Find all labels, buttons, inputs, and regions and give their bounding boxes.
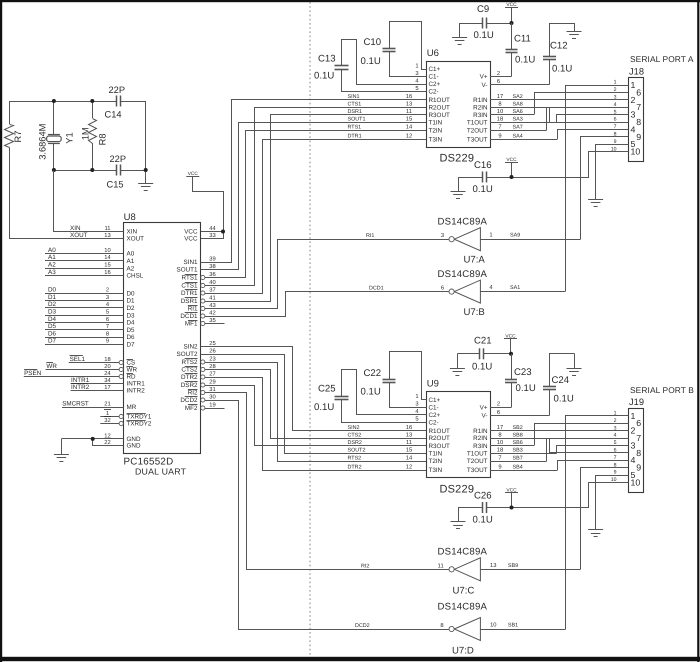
wire SOUT1 U8 to U6 — [201, 123, 427, 270]
svg-text:RTS2: RTS2 — [182, 359, 198, 366]
svg-text:C23: C23 — [514, 367, 532, 378]
wire DTR2 U8 to U9 — [205, 378, 427, 471]
svg-text:SMCRST: SMCRST — [62, 400, 89, 407]
wire U8 pin 2 D0 — [45, 293, 124, 295]
svg-text:14: 14 — [406, 455, 413, 461]
svg-text:20: 20 — [104, 363, 110, 370]
svg-text:DSR2: DSR2 — [181, 382, 198, 389]
svg-text:C16: C16 — [474, 160, 492, 171]
svg-text:D1: D1 — [48, 294, 57, 301]
pin number 9 / net SA4 — [498, 133, 522, 140]
wire C13 to C2- — [342, 70, 427, 92]
svg-text:CTS2: CTS2 — [181, 367, 198, 374]
svg-text:43: 43 — [209, 302, 215, 309]
svg-text:8: 8 — [636, 117, 641, 127]
svg-text:U6: U6 — [427, 48, 439, 59]
svg-text:SERIAL PORT B: SERIAL PORT B — [630, 385, 694, 395]
wire SIN1 U8 to U6 — [201, 100, 427, 263]
svg-text:13: 13 — [406, 431, 412, 438]
svg-text:16: 16 — [406, 93, 412, 100]
svg-text:10: 10 — [631, 147, 641, 157]
wire CTS1 U8 to U6 — [205, 108, 427, 286]
wire XIN from crystal — [54, 171, 124, 232]
svg-text:14: 14 — [104, 255, 111, 261]
ground at C24 — [574, 354, 576, 368]
wire VCC to U8 pin 44 — [193, 177, 224, 232]
svg-text:26: 26 — [209, 347, 215, 354]
svg-text:15: 15 — [406, 448, 412, 454]
svg-text:3: 3 — [631, 440, 636, 450]
svg-text:8: 8 — [106, 330, 109, 337]
svg-text:6: 6 — [497, 78, 500, 85]
wire C26 to ground — [458, 507, 482, 509]
svg-text:C9: C9 — [477, 4, 489, 15]
svg-text:R8: R8 — [98, 133, 108, 145]
svg-text:T2IN: T2IN — [429, 127, 443, 134]
svg-text:42: 42 — [209, 309, 215, 316]
svg-text:DTR2: DTR2 — [181, 374, 198, 381]
svg-text:A2: A2 — [127, 265, 135, 272]
svg-text:VCC: VCC — [184, 229, 198, 236]
wire U8 GND pin 22 — [93, 439, 124, 446]
svg-text:T3IN: T3IN — [429, 136, 443, 143]
wire SB6 jog to J19 row2 — [535, 424, 629, 446]
wire SB9 J19 row8 from U7:C — [581, 468, 629, 570]
wire RI1 net — [278, 239, 449, 241]
svg-text:TXRDY2: TXRDY2 — [127, 421, 152, 428]
inverter-buffer U7:B (DS14C89A) — [449, 280, 480, 303]
wire SA9 J18 row8 from U7:A — [581, 137, 629, 240]
svg-text:MF2: MF2 — [185, 405, 198, 412]
svg-text:24: 24 — [104, 370, 111, 377]
svg-text:SA8: SA8 — [513, 102, 523, 108]
svg-text:R1IN: R1IN — [473, 428, 488, 435]
resistor R8 — [89, 101, 97, 170]
svg-text:39: 39 — [209, 255, 215, 262]
wire C2+ loop via C13 — [342, 40, 427, 85]
wire U8 pin 18 SEL1 — [69, 362, 119, 364]
wire U9 R3IN stub — [490, 445, 534, 447]
ground at C16 — [458, 177, 460, 191]
svg-text:RD: RD — [127, 374, 137, 381]
svg-text:SB3: SB3 — [513, 448, 523, 454]
wire SB8 jog to J19 row6 — [550, 439, 629, 453]
svg-text:SA7: SA7 — [513, 125, 523, 131]
svg-text:D6: D6 — [127, 334, 136, 341]
wire U8 pin 21 SMCRST — [62, 407, 124, 409]
pin number 10 / net SB6 — [497, 439, 523, 446]
svg-text:SA1: SA1 — [510, 285, 520, 291]
wire crystal bottom rail right — [121, 170, 146, 172]
inverter-buffer U7:C (DS14C89A) — [449, 558, 480, 581]
capacitor C14 — [116, 96, 118, 107]
svg-text:V+: V+ — [480, 74, 488, 81]
svg-text:9: 9 — [498, 463, 501, 470]
svg-text:14: 14 — [406, 125, 413, 131]
svg-text:R2OUT: R2OUT — [429, 104, 450, 111]
svg-text:RI1: RI1 — [188, 306, 198, 313]
wire MF2 stub — [205, 408, 225, 410]
J18 pin numbers 1-10 — [611, 80, 617, 153]
svg-text:6: 6 — [497, 409, 500, 416]
pin number 10 / net SA6 — [497, 108, 523, 115]
svg-text:9: 9 — [614, 470, 617, 476]
svg-text:T2OUT: T2OUT — [467, 458, 488, 465]
svg-text:T1OUT: T1OUT — [467, 450, 488, 457]
wire U8 pin 14 A1 — [45, 260, 124, 262]
svg-text:19: 19 — [209, 401, 215, 408]
svg-text:R1OUT: R1OUT — [429, 428, 450, 435]
IC U9 DS229 body — [427, 392, 491, 478]
labels channel1 nets at U6 — [348, 93, 413, 139]
svg-text:18: 18 — [497, 116, 503, 123]
svg-text:D2: D2 — [48, 301, 57, 308]
capacitor C26 — [482, 502, 484, 513]
svg-text:T3IN: T3IN — [429, 467, 443, 474]
wire SA1 net — [480, 291, 565, 293]
wire SB7 jog to J19 row4 — [547, 439, 629, 462]
svg-text:0.1U: 0.1U — [314, 71, 334, 82]
svg-text:22P: 22P — [109, 85, 126, 95]
svg-text:C26: C26 — [474, 491, 492, 502]
svg-text:7: 7 — [636, 433, 641, 443]
wire DSR1 U8 to U6 — [205, 115, 427, 302]
capacitor C16 — [482, 172, 484, 183]
wire U8 pin 7 D5 — [45, 329, 124, 331]
wire V- rail — [490, 84, 550, 86]
svg-text:30: 30 — [209, 393, 215, 400]
capacitor C12 (V- to gnd) — [543, 24, 575, 85]
svg-text:32: 32 — [104, 417, 110, 424]
svg-text:3: 3 — [106, 294, 109, 301]
svg-text:C15: C15 — [107, 180, 124, 190]
svg-text:C1+: C1+ — [429, 66, 441, 73]
wire DCD2 net — [238, 629, 448, 631]
svg-text:INTR1: INTR1 — [127, 381, 146, 388]
svg-text:38: 38 — [209, 263, 215, 270]
svg-text:SOUT2: SOUT2 — [348, 448, 366, 454]
wire RI2 net — [247, 569, 449, 571]
svg-text:0.1U: 0.1U — [472, 362, 492, 373]
svg-text:SB7: SB7 — [513, 455, 523, 461]
svg-text:R7: R7 — [13, 131, 23, 143]
wire U9 T1OUT stub — [490, 453, 557, 455]
svg-text:R3OUT: R3OUT — [429, 443, 450, 450]
ground at C21 — [457, 354, 459, 368]
svg-text:R3IN: R3IN — [473, 112, 488, 119]
svg-text:2: 2 — [497, 70, 500, 77]
svg-text:U9: U9 — [427, 379, 439, 390]
pin number 8 / net SB8 — [498, 431, 522, 438]
wire RTS2 U8 to U9 — [205, 363, 427, 462]
svg-text:PSEN: PSEN — [24, 370, 42, 377]
svg-text:21: 21 — [104, 400, 110, 407]
svg-text:CHSL: CHSL — [127, 273, 144, 280]
svg-text:8: 8 — [636, 448, 641, 458]
svg-text:RTS2: RTS2 — [348, 455, 362, 461]
svg-text:16: 16 — [406, 424, 412, 431]
svg-text:17: 17 — [104, 385, 110, 391]
svg-text:0.1U: 0.1U — [552, 64, 572, 75]
svg-text:C2-: C2- — [429, 420, 439, 427]
wire U6 T3OUT stub — [490, 139, 557, 141]
svg-text:22P: 22P — [110, 154, 127, 164]
ground at C9 — [459, 23, 461, 37]
svg-text:0.1U: 0.1U — [314, 402, 334, 413]
svg-text:5: 5 — [106, 310, 109, 316]
svg-text:DTR2: DTR2 — [348, 464, 362, 470]
svg-text:XIN: XIN — [127, 229, 138, 236]
wire U8 pin 34 INTR1 — [71, 383, 124, 385]
svg-text:9: 9 — [498, 133, 501, 140]
wire XOUT from R7 — [10, 148, 124, 239]
svg-text:DS14C89A: DS14C89A — [438, 217, 488, 228]
wire U6 R3IN stub — [490, 114, 534, 116]
svg-text:T3OUT: T3OUT — [467, 467, 488, 474]
junction crystal rails — [52, 99, 148, 172]
J19 pin labels inside — [631, 411, 642, 488]
wire SA2 U6 R1IN to J18 row3 — [490, 99, 629, 101]
wire DCD1 from U7:B to U8 — [205, 292, 449, 317]
wire U8 pin 17 INTR2 — [71, 390, 124, 392]
svg-text:15: 15 — [104, 263, 110, 269]
svg-text:DCD2: DCD2 — [180, 397, 198, 404]
svg-text:D5: D5 — [48, 323, 57, 330]
svg-text:1: 1 — [631, 411, 636, 421]
svg-text:V-: V- — [482, 82, 488, 89]
svg-text:SIN2: SIN2 — [184, 344, 198, 351]
svg-text:13: 13 — [490, 562, 496, 569]
svg-text:1: 1 — [415, 63, 418, 69]
svg-text:T1IN: T1IN — [429, 120, 443, 127]
svg-text:3: 3 — [415, 70, 418, 77]
svg-text:U7:D: U7:D — [452, 646, 474, 657]
svg-text:A1: A1 — [127, 258, 135, 265]
svg-text:TXRDY1: TXRDY1 — [127, 414, 152, 421]
IC U6 DS229 body — [427, 62, 491, 148]
svg-text:7: 7 — [636, 102, 641, 112]
svg-text:37: 37 — [209, 286, 215, 293]
svg-text:C1+: C1+ — [429, 397, 441, 404]
U8 right pin names — [177, 229, 205, 413]
junction C9/VCC — [510, 21, 514, 25]
svg-text:DSR2: DSR2 — [348, 440, 362, 446]
label U7:C texts — [361, 547, 518, 597]
svg-text:SIN2: SIN2 — [348, 425, 360, 431]
svg-text:VCC: VCC — [184, 236, 198, 243]
svg-text:10: 10 — [104, 247, 110, 254]
svg-text:SOUT2: SOUT2 — [177, 351, 198, 358]
svg-text:40: 40 — [209, 279, 215, 286]
svg-text:11: 11 — [104, 226, 110, 232]
svg-text:6: 6 — [106, 316, 109, 323]
wire U9 R2IN stub — [490, 438, 549, 440]
svg-text:6: 6 — [636, 87, 641, 97]
pin number 18 / net SB3 — [497, 447, 523, 454]
connector J18 body — [629, 78, 644, 162]
U8 left pin names — [119, 229, 152, 450]
dashed page-split line — [309, 2, 311, 657]
svg-text:GND: GND — [127, 443, 141, 450]
svg-text:DTR1: DTR1 — [348, 134, 362, 140]
svg-text:CTS1: CTS1 — [348, 102, 362, 108]
wire U8 pin 1 TXRDY1 stub — [100, 416, 119, 418]
svg-text:SOUT1: SOUT1 — [177, 267, 198, 274]
svg-text:29: 29 — [209, 378, 215, 385]
svg-text:SA4: SA4 — [513, 134, 523, 140]
wire SA8 jog to J18 row6 — [550, 108, 629, 123]
svg-text:3: 3 — [631, 110, 636, 120]
svg-text:DCD1: DCD1 — [369, 286, 384, 292]
svg-text:10: 10 — [497, 439, 503, 446]
svg-text:V+: V+ — [480, 405, 488, 412]
wire U8 pin 24 PSEN — [24, 376, 119, 378]
svg-text:DSR1: DSR1 — [181, 298, 198, 305]
capacitor C24 (V- to gnd) — [543, 354, 575, 416]
wire U8 pin 13 XOUT — [9, 238, 123, 240]
wire CTS2 U8 to U9 — [205, 370, 427, 439]
svg-text:D0: D0 — [127, 290, 136, 297]
svg-text:SA3: SA3 — [513, 117, 523, 123]
svg-text:9: 9 — [636, 463, 641, 473]
wire SIN2 U8 to U9 — [201, 347, 427, 431]
svg-text:R3IN: R3IN — [473, 443, 488, 450]
svg-text:T1IN: T1IN — [429, 450, 443, 457]
svg-text:A0: A0 — [127, 251, 135, 258]
svg-text:27: 27 — [209, 370, 215, 377]
svg-text:0.1U: 0.1U — [361, 56, 381, 67]
svg-text:35: 35 — [209, 317, 215, 324]
svg-text:9: 9 — [636, 132, 641, 142]
svg-text:7: 7 — [106, 324, 109, 330]
labels channel2 nets at U9 — [348, 424, 413, 470]
wire crystal top rail — [9, 101, 116, 103]
svg-text:18: 18 — [104, 356, 110, 363]
svg-text:23: 23 — [209, 355, 215, 362]
svg-text:RTS1: RTS1 — [348, 125, 362, 131]
svg-text:22: 22 — [104, 439, 110, 446]
svg-text:5: 5 — [415, 417, 418, 423]
wire SB1 J19 row1 from U7:D — [566, 416, 629, 630]
svg-text:INTR2: INTR2 — [71, 384, 90, 391]
svg-text:10: 10 — [631, 477, 641, 487]
svg-text:15: 15 — [406, 117, 412, 123]
svg-text:2: 2 — [631, 426, 636, 436]
ground at C26 — [458, 508, 460, 522]
pin number 17 / net SA2 — [497, 94, 523, 100]
svg-text:CTS1: CTS1 — [181, 283, 198, 290]
junction VCC pins — [221, 230, 225, 234]
wire U9 T3OUT stub — [490, 470, 557, 472]
wire C16 to ground — [458, 177, 482, 179]
svg-text:XOUT: XOUT — [127, 236, 145, 243]
svg-text:4: 4 — [631, 455, 636, 465]
wire RI2 from U7:C to U8 — [205, 393, 449, 570]
wire SA7 jog to J18 row4 — [547, 108, 629, 131]
svg-text:MF1: MF1 — [185, 321, 198, 328]
pin number 7 / net SA7 — [498, 125, 522, 131]
wire SB9 net — [480, 569, 580, 571]
wire U8 pin 5 D3 — [45, 315, 124, 317]
svg-text:SIN1: SIN1 — [184, 259, 198, 266]
wire U6 R2IN stub — [490, 107, 549, 109]
svg-text:RI1: RI1 — [366, 233, 374, 239]
svg-text:4: 4 — [614, 433, 617, 439]
svg-text:A1: A1 — [48, 254, 56, 261]
svg-text:16: 16 — [104, 269, 110, 276]
wire SB3 jog to J19 row5 — [557, 446, 629, 454]
wire RI1 from U7:A to U8 — [205, 240, 449, 309]
svg-text:INTR2: INTR2 — [127, 388, 146, 395]
wire SA3 jog to J18 row5 — [557, 115, 629, 123]
J19 pin numbers 1-10 — [611, 411, 617, 484]
capacitor C13 — [335, 65, 349, 67]
wire DCD1 net — [286, 291, 449, 293]
svg-text:WR: WR — [127, 367, 138, 374]
svg-text:R2OUT: R2OUT — [429, 435, 450, 442]
wire SA1 J18 row1 from U7:B — [566, 86, 629, 292]
svg-text:8: 8 — [440, 622, 443, 629]
svg-text:11: 11 — [406, 440, 412, 446]
svg-text:D6: D6 — [48, 330, 57, 337]
svg-text:28: 28 — [209, 363, 215, 370]
svg-text:C22: C22 — [364, 368, 382, 379]
wire C1+ loop via C10 — [390, 22, 427, 70]
svg-text:DUAL UART: DUAL UART — [135, 467, 187, 477]
svg-text:C13: C13 — [318, 54, 336, 65]
resistor R7 — [5, 101, 14, 148]
power VCC at C16 — [505, 157, 518, 177]
svg-text:U7:C: U7:C — [453, 586, 475, 597]
wire SOUT2 U8 to U9 — [201, 355, 427, 454]
svg-text:0.1U: 0.1U — [473, 515, 493, 526]
wire SA6 jog to J18 row2 — [535, 93, 629, 115]
svg-text:0.1U: 0.1U — [361, 387, 381, 398]
wire U9 T2OUT stub — [490, 461, 546, 463]
svg-text:DTR1: DTR1 — [181, 290, 198, 297]
svg-text:12: 12 — [104, 432, 110, 439]
svg-text:1: 1 — [106, 411, 109, 417]
svg-text:DSR1: DSR1 — [348, 109, 362, 115]
svg-text:J18: J18 — [629, 66, 644, 76]
connector J19 body — [629, 409, 644, 493]
wire RTS1 U8 to U6 — [205, 131, 427, 278]
wire U8 pin33 VCC — [201, 232, 224, 239]
wire J18 row9 to ground — [596, 145, 629, 200]
wire U8 pin 10 A0 — [45, 253, 124, 255]
svg-text:SB1: SB1 — [508, 623, 518, 629]
svg-text:1: 1 — [614, 80, 617, 86]
svg-text:D3: D3 — [127, 312, 136, 319]
svg-text:7: 7 — [498, 125, 501, 131]
svg-text:D7: D7 — [48, 338, 57, 345]
svg-text:U8: U8 — [124, 212, 136, 223]
svg-text:6: 6 — [441, 285, 444, 292]
capacitor C21 — [457, 348, 511, 359]
svg-text:3: 3 — [415, 401, 418, 408]
svg-text:9: 9 — [106, 338, 109, 345]
wire DSR2 U8 to U9 — [205, 386, 427, 446]
U9 pin names — [415, 394, 488, 474]
svg-text:C12: C12 — [550, 41, 568, 52]
svg-text:A3: A3 — [48, 269, 56, 276]
svg-text:D3: D3 — [48, 309, 57, 316]
wire C1+ loop via C22 — [390, 352, 427, 400]
wire SA9 net — [480, 239, 580, 241]
svg-text:A0: A0 — [48, 247, 56, 254]
svg-text:34: 34 — [104, 377, 111, 384]
svg-text:DS229: DS229 — [440, 153, 475, 165]
